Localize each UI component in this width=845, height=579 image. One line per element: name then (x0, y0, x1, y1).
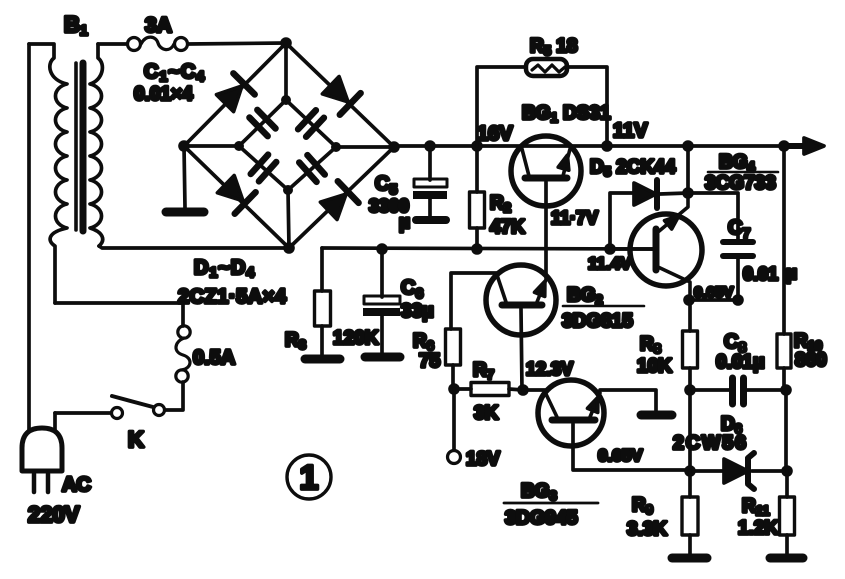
fuse 0.5A (176, 326, 190, 382)
svg-text:R6: R6 (413, 331, 434, 353)
node 12.3V (517, 384, 529, 396)
svg-text:R11: R11 (742, 496, 769, 518)
diode D3 (215, 173, 255, 213)
diode D2 (320, 74, 360, 114)
svg-text:120K: 120K (333, 328, 379, 349)
output arrow (788, 138, 824, 154)
svg-text:C1~C4: C1~C4 (144, 61, 205, 84)
diode D4 (318, 181, 358, 221)
node R3 corner (320, 248, 324, 291)
bridge inner diamond C1-C4 (239, 100, 336, 190)
bridge spoke bottom (288, 190, 289, 248)
svg-text:R7: R7 (473, 360, 494, 382)
svg-text:3K: 3K (474, 403, 499, 424)
diode D1 (214, 73, 254, 113)
node bridge top vertex (280, 37, 292, 49)
wire primary bottom to fuse 0.5A (55, 303, 183, 326)
wire fuse to switch (165, 382, 183, 410)
svg-text:2CW56: 2CW56 (673, 432, 748, 454)
node bridge left vertex (178, 140, 190, 152)
svg-text:R9: R9 (632, 495, 653, 517)
node inner right (331, 142, 341, 152)
transistor BG1 (511, 136, 581, 278)
wire secondary bottom to bridge (99, 246, 289, 248)
svg-text:μ: μ (786, 263, 797, 283)
svg-text:0.01×4: 0.01×4 (134, 84, 193, 105)
svg-text:R2: R2 (490, 193, 511, 215)
AC plug (22, 428, 62, 492)
capacitor C3 (251, 155, 277, 182)
svg-text:BG2: BG2 (567, 285, 603, 307)
node D6 left (684, 465, 696, 477)
resistor R11 (770, 471, 803, 558)
svg-text:0.01μ: 0.01μ (716, 352, 765, 373)
transistor BG4 (610, 194, 702, 300)
node D6 right (781, 465, 793, 477)
svg-text:R3: R3 (285, 330, 306, 352)
diode D6 zener (690, 453, 787, 489)
node C5 rail (424, 140, 436, 152)
wire R5 bypass loop (477, 67, 607, 146)
svg-text:18V: 18V (466, 449, 500, 470)
resistor R3 (305, 291, 340, 359)
node 11V (601, 140, 613, 152)
wire BG4 emitter to D6 node (688, 390, 692, 471)
svg-text:R8: R8 (640, 334, 661, 356)
svg-text:11·7V: 11·7V (551, 208, 598, 228)
node D5 cathode (682, 187, 694, 199)
bridge spoke right (336, 145, 394, 149)
transistor BG3 (523, 380, 689, 470)
node R7 left (448, 383, 460, 395)
wire rail to D5 node (686, 146, 690, 193)
label 3DG945 (504, 502, 598, 505)
resistor R7 (454, 383, 523, 396)
node C7 bottom (732, 294, 744, 306)
svg-text:0.65V: 0.65V (598, 446, 643, 465)
svg-text:16V: 16V (477, 123, 513, 145)
transformer B1 core (76, 63, 83, 231)
capacitor C2 (298, 110, 324, 136)
symbol circled 1 (287, 455, 331, 499)
svg-text:R5 18: R5 18 (530, 36, 577, 58)
transistor BG2 (486, 265, 556, 390)
node inner left (234, 141, 244, 151)
node inner bottom (283, 185, 293, 195)
switch K (55, 396, 165, 430)
label 3DG815 (563, 305, 644, 308)
capacitor C7 (688, 193, 753, 300)
label 3CG733 (708, 171, 778, 174)
node bridge bottom vertex (283, 242, 295, 254)
node emitter BG4 (683, 294, 695, 306)
svg-text:K: K (128, 427, 144, 452)
wire fuse to bridge top (188, 43, 286, 44)
resistor R5 (526, 59, 567, 76)
node C8 left (684, 384, 696, 396)
resistor R10 (777, 146, 791, 471)
bridge spoke left (184, 144, 239, 148)
svg-text:860: 860 (795, 350, 827, 371)
svg-text:11V: 11V (613, 120, 648, 142)
transformer B1 secondary winding (90, 44, 103, 246)
node R2 bottom (471, 243, 483, 255)
svg-text:12.3V: 12.3V (526, 359, 573, 379)
svg-text:B1: B1 (64, 12, 88, 38)
capacitor C1 (249, 110, 275, 136)
svg-text:75: 75 (419, 351, 441, 372)
resistor R8 (683, 300, 698, 390)
node inner top (281, 95, 291, 105)
svg-text:3CG733: 3CG733 (705, 173, 776, 194)
wire secondary top to fuse (98, 42, 127, 46)
node rail-784 (778, 140, 790, 152)
svg-text:3DG815: 3DG815 (562, 311, 633, 332)
svg-text:D1~D4: D1~D4 (194, 257, 255, 280)
svg-text:BG3: BG3 (521, 481, 557, 503)
svg-text:3.3K: 3.3K (627, 519, 667, 540)
svg-text:33μ: 33μ (401, 301, 434, 322)
ground at bridge left vertex (166, 146, 204, 212)
terminal 18V (448, 389, 461, 464)
svg-text:AC: AC (62, 474, 91, 496)
diode D5 (610, 180, 688, 249)
resistor R9 (672, 471, 707, 558)
capacitor C6 (363, 249, 400, 357)
svg-text:μ: μ (399, 212, 410, 232)
svg-text:1: 1 (300, 459, 319, 497)
svg-text:11.4V: 11.4V (588, 254, 632, 273)
svg-text:0.65V: 0.65V (694, 284, 733, 301)
node 11.4V (604, 243, 616, 255)
svg-text:C5: C5 (375, 173, 397, 197)
bridge rectifier outer diamond D1-D4 (184, 43, 394, 248)
node rail-688 (682, 140, 694, 152)
capacitor C8 (690, 378, 786, 404)
svg-text:10K: 10K (637, 356, 672, 377)
resistor R6 (446, 273, 498, 389)
svg-text:0.5A: 0.5A (193, 347, 235, 369)
node bridge right vertex (388, 141, 400, 153)
svg-text:220V: 220V (28, 502, 80, 527)
svg-text:D5 2CK44: D5 2CK44 (590, 157, 676, 179)
wire main positive rail (394, 144, 806, 148)
resistor R2 (470, 146, 485, 249)
svg-text:0.01: 0.01 (743, 264, 778, 284)
svg-text:1.2K: 1.2K (738, 518, 778, 539)
node C6 top (376, 243, 388, 255)
capacitor C4 (299, 155, 325, 182)
node C8 right (780, 384, 792, 396)
svg-text:47K: 47K (490, 217, 525, 238)
svg-text:BG1 DS31: BG1 DS31 (522, 103, 611, 125)
svg-text:C6: C6 (401, 277, 423, 301)
fuse 3A (128, 37, 188, 50)
svg-text:2CZ1·5A×4: 2CZ1·5A×4 (178, 286, 287, 308)
svg-text:3DG945: 3DG945 (505, 507, 578, 529)
svg-text:C7: C7 (728, 217, 750, 241)
wire left AC rail (27, 44, 31, 430)
wire 0.65V node BG4 (688, 298, 738, 302)
capacitor C5 (413, 146, 447, 220)
transformer B1 primary winding (29, 44, 67, 303)
node 16V (471, 140, 483, 152)
bridge spoke top (284, 43, 288, 100)
wire mid control line (322, 248, 655, 249)
svg-text:3A: 3A (145, 14, 172, 37)
